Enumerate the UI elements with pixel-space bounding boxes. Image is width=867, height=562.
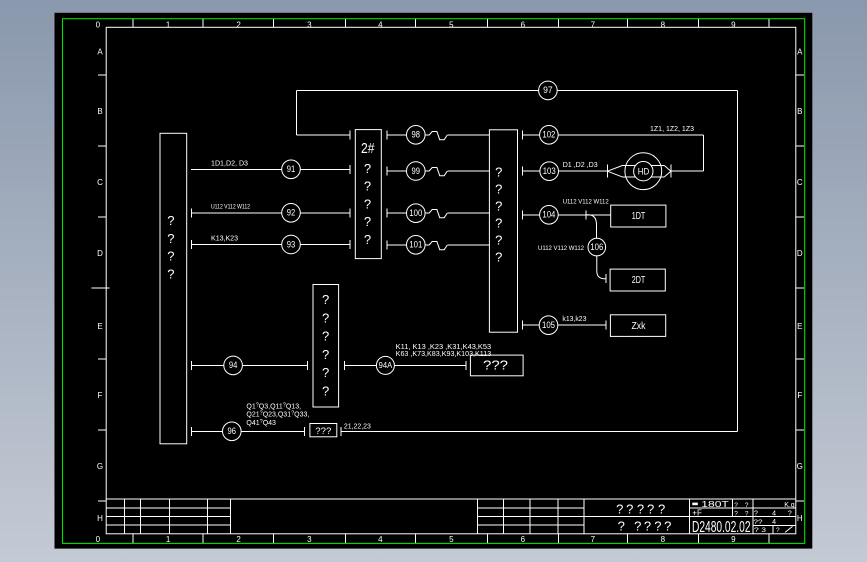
node 106 — [588, 238, 606, 256]
svg-text:?: ? — [167, 213, 174, 228]
svg-text:?: ? — [644, 519, 651, 534]
svg-text:94: 94 — [229, 360, 238, 370]
svg-text:Q1?Q3,Q11?Q13,: Q1?Q3,Q11?Q13, — [246, 403, 301, 411]
svg-text:?: ? — [364, 214, 371, 229]
svg-text:?: ? — [495, 232, 502, 247]
svg-text:?: ? — [654, 519, 661, 534]
svg-text:E: E — [797, 322, 802, 331]
title text row1 — [616, 501, 665, 516]
svg-text:96: 96 — [228, 426, 237, 436]
terminal strip X4 — [489, 130, 517, 332]
svg-text:2: 2 — [236, 20, 241, 29]
svg-text:H: H — [797, 514, 803, 523]
svg-text:+F: +F — [692, 509, 702, 518]
svg-text:H: H — [97, 514, 103, 523]
node 104 — [540, 206, 559, 225]
svg-text:?: ? — [495, 215, 502, 230]
svg-text:D: D — [797, 249, 803, 258]
svg-text:?: ? — [364, 197, 371, 212]
green sheet border — [63, 19, 805, 544]
inner drawing frame — [106, 27, 796, 534]
wire row 91 — [191, 165, 350, 174]
svg-text:?: ? — [495, 182, 502, 197]
motor connector — [607, 165, 703, 178]
svg-text:A: A — [97, 48, 103, 57]
node 103 — [540, 162, 559, 181]
node 99 — [407, 162, 426, 181]
svg-text:2: 2 — [236, 535, 241, 544]
wire row 96 — [192, 427, 305, 436]
svg-text:U112 V112 W112: U112 V112 W112 — [538, 245, 584, 252]
svg-text:99: 99 — [412, 166, 421, 176]
svg-text:2DT: 2DT — [632, 275, 646, 286]
svg-text:?: ? — [322, 329, 329, 344]
svg-text:?: ? — [322, 310, 329, 325]
svg-text:103: 103 — [543, 166, 556, 176]
svg-text:?: ? — [788, 510, 792, 517]
svg-text:8: 8 — [661, 20, 666, 29]
ruler row ticks left — [92, 75, 110, 501]
node 97 — [539, 81, 558, 100]
svg-text:K11, K13 ,K23 ,K31,K43,K53: K11, K13 ,K23 ,K31,K43,K53 — [396, 344, 492, 351]
svg-text:C: C — [97, 178, 103, 187]
svg-text:1D1,D2, D3: 1D1,D2, D3 — [211, 161, 248, 168]
svg-text:92: 92 — [287, 208, 296, 218]
svg-text:?: ? — [167, 249, 174, 264]
svg-text:D1 ,D2 ,D3: D1 ,D2 ,D3 — [563, 160, 598, 169]
box 2DT — [610, 269, 665, 291]
svg-text:?: ? — [495, 165, 502, 180]
svg-text:9: 9 — [731, 535, 736, 544]
svg-text:?: ? — [647, 501, 654, 516]
node 98 — [407, 126, 426, 145]
wire row 104 — [523, 211, 611, 220]
svg-text:2#: 2# — [361, 140, 375, 157]
svg-text:?: ? — [364, 161, 371, 176]
terminal strip X2 — [355, 130, 381, 259]
svg-text:???: ??? — [315, 426, 331, 437]
ruler column ticks top — [133, 19, 769, 27]
wire row 98 — [387, 131, 490, 140]
svg-text:B: B — [797, 107, 802, 116]
svg-text:9: 9 — [731, 20, 736, 29]
svg-text:?: ? — [167, 231, 174, 246]
wire row 94 — [192, 361, 308, 370]
terminal strip X1 — [160, 133, 187, 444]
svg-text:F: F — [797, 391, 802, 400]
wire branch 104 to 106 — [586, 215, 597, 239]
svg-text:D2480.02.02: D2480.02.02 — [692, 519, 751, 536]
node 105 — [539, 316, 558, 335]
svg-text:K13,K23: K13,K23 — [211, 235, 238, 242]
svg-text:3: 3 — [307, 20, 312, 29]
svg-text:U112 V112 W112: U112 V112 W112 — [563, 198, 609, 205]
svg-text:?: ? — [626, 501, 633, 516]
wire row 101 — [387, 241, 490, 250]
svg-text:1: 1 — [166, 20, 171, 29]
wire top loop — [297, 91, 738, 432]
svg-text:5: 5 — [449, 535, 454, 544]
wire row 105 — [523, 321, 607, 330]
svg-text:?: ? — [495, 199, 502, 214]
wire row 100 — [387, 209, 490, 218]
svg-text:?: ? — [364, 232, 371, 247]
box Zxk — [610, 315, 665, 337]
svg-text:E: E — [97, 322, 102, 331]
svg-text:4: 4 — [378, 535, 383, 544]
ruler row letters right — [797, 48, 803, 524]
node 94 — [224, 356, 243, 375]
svg-text:U112 V112 W112: U112 V112 W112 — [211, 203, 250, 210]
svg-text:A: A — [797, 48, 803, 57]
svg-text:?: ? — [322, 292, 329, 307]
svg-text:101: 101 — [409, 240, 422, 250]
node 101 — [407, 236, 426, 255]
svg-text:91: 91 — [287, 164, 296, 174]
node 100 — [407, 204, 426, 223]
svg-text:???: ??? — [483, 358, 508, 373]
svg-text:104: 104 — [542, 210, 555, 220]
svg-text:0: 0 — [96, 535, 101, 544]
svg-text:6: 6 — [521, 20, 526, 29]
ruler column numbers bottom — [96, 535, 737, 544]
svg-text:106: 106 — [590, 242, 603, 252]
title block horizontal lines — [106, 499, 796, 526]
title text row2 — [618, 519, 672, 534]
svg-text:4: 4 — [378, 20, 383, 29]
svg-text:4: 4 — [772, 519, 776, 526]
wire row 94A — [345, 361, 467, 370]
svg-text:HD: HD — [638, 167, 650, 177]
svg-text:7: 7 — [591, 535, 596, 544]
svg-text:4: 4 — [772, 510, 776, 517]
svg-text:K.g: K.g — [784, 502, 795, 509]
svg-text:F: F — [98, 391, 103, 400]
svg-text:93: 93 — [287, 239, 296, 249]
svg-text:B: B — [97, 107, 102, 116]
node 102 — [540, 126, 559, 145]
svg-text:?: ? — [754, 510, 758, 517]
svg-text:8: 8 — [661, 535, 666, 544]
svg-text:G: G — [97, 462, 103, 471]
svg-text:102: 102 — [542, 130, 555, 140]
svg-text:94A: 94A — [379, 360, 393, 370]
svg-text:?: ? — [322, 384, 329, 399]
svg-text:k13,k23: k13,k23 — [562, 316, 586, 323]
box query small — [310, 424, 337, 437]
svg-text:?: ? — [618, 519, 625, 534]
node 92 — [282, 204, 301, 223]
wire row 99 — [387, 167, 490, 176]
svg-text:21,22,23: 21,22,23 — [344, 421, 371, 430]
svg-text:105: 105 — [542, 320, 555, 330]
ruler row ticks right — [796, 75, 804, 501]
svg-text:?: ? — [734, 502, 738, 509]
svg-text:180T: 180T — [701, 499, 729, 509]
svg-text:?: ? — [495, 249, 502, 264]
svg-text:?: ? — [167, 266, 174, 281]
svg-text:?: ? — [745, 502, 749, 509]
svg-text:1DT: 1DT — [632, 211, 646, 222]
svg-text:??: ?? — [754, 519, 763, 526]
svg-text:?: ? — [364, 179, 371, 194]
terminal strip X3 — [313, 285, 339, 408]
title block vertical lines — [125, 499, 774, 534]
svg-text:?: ? — [322, 365, 329, 380]
wire row 103 — [523, 167, 608, 176]
svg-text:5: 5 — [449, 20, 454, 29]
svg-text:?: ? — [616, 501, 623, 516]
wire 106 to 2DT — [597, 256, 606, 283]
svg-text:100: 100 — [409, 208, 422, 218]
ruler row letters left — [97, 48, 103, 524]
svg-text:?: ? — [734, 510, 738, 517]
svg-text:?: ? — [637, 501, 644, 516]
svg-text:?: ? — [322, 347, 329, 362]
svg-text:Zxk: Zxk — [632, 321, 647, 332]
node 93 — [282, 235, 301, 254]
svg-text:98: 98 — [412, 130, 421, 140]
svg-text:?: ? — [658, 501, 665, 516]
svg-text:?: ? — [745, 510, 749, 517]
svg-text:6: 6 — [521, 535, 526, 544]
svg-text:? 3: ? 3 — [754, 527, 766, 534]
wire row 92 — [192, 209, 351, 218]
svg-text:1: 1 — [166, 535, 171, 544]
svg-text:97: 97 — [543, 85, 553, 95]
node 94A — [376, 356, 394, 374]
svg-text:?: ? — [664, 519, 671, 534]
svg-text:7: 7 — [591, 20, 596, 29]
wire row 102 — [523, 131, 704, 172]
svg-text:0: 0 — [96, 20, 101, 29]
node 91 — [282, 160, 301, 179]
svg-text:?: ? — [776, 527, 780, 534]
svg-text:C: C — [797, 178, 803, 187]
svg-text:D: D — [97, 249, 103, 258]
motor HD — [625, 153, 662, 190]
svg-text:Q21?Q23,Q31?Q33,: Q21?Q23,Q31?Q33, — [246, 411, 309, 419]
stamp dash — [692, 503, 698, 506]
box query right — [470, 355, 523, 376]
box 1DT — [611, 205, 666, 227]
ruler column numbers top — [96, 20, 737, 29]
wire row 96 right — [341, 427, 738, 436]
wire row 93 — [192, 240, 351, 249]
node 96 — [223, 422, 242, 441]
svg-text:?: ? — [634, 519, 641, 534]
svg-text:3: 3 — [307, 535, 312, 544]
svg-text:1Z1, 1Z2, 1Z3: 1Z1, 1Z2, 1Z3 — [650, 124, 694, 133]
ruler column ticks bottom — [133, 534, 769, 543]
svg-text:G: G — [797, 462, 803, 471]
